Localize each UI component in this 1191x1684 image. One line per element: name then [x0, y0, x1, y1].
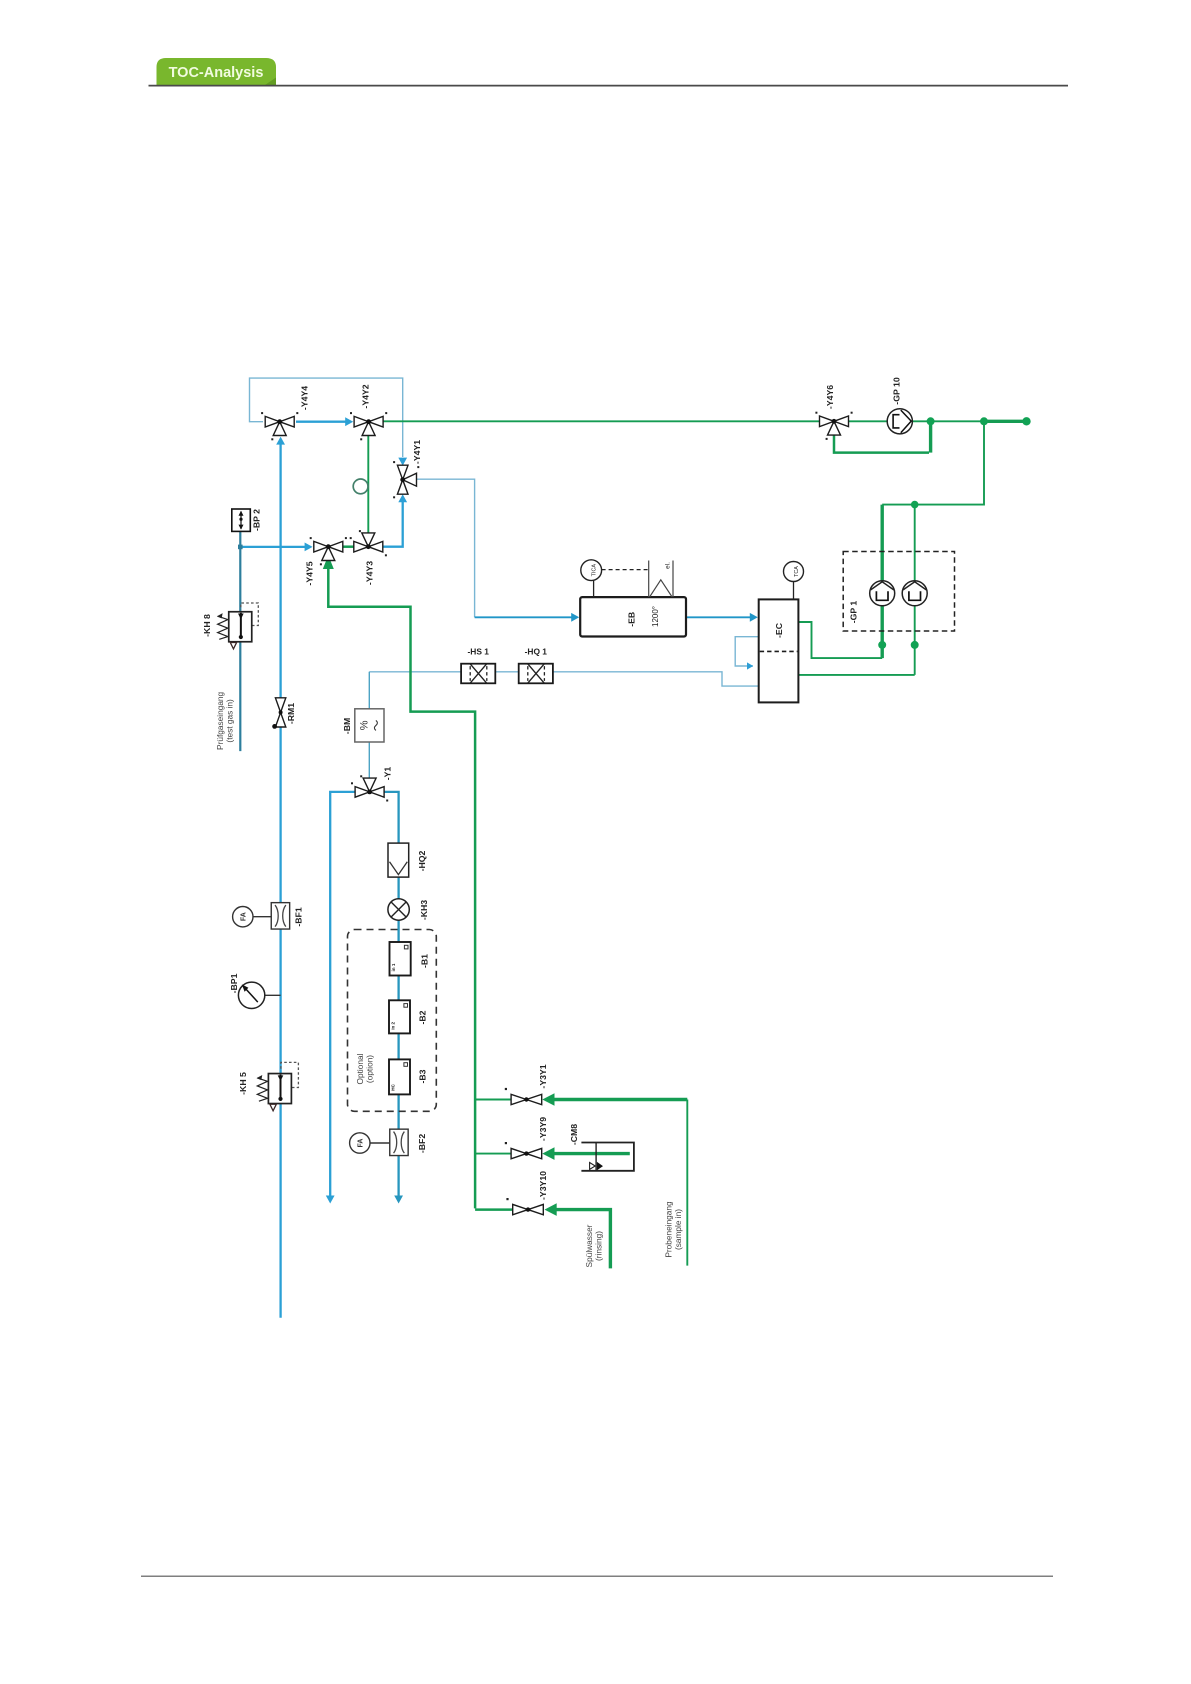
svg-text:-GP 1: -GP 1 — [849, 601, 859, 624]
svg-text:-HQ2: -HQ2 — [417, 850, 427, 871]
svg-text:TOC-Analysis: TOC-Analysis — [169, 65, 264, 81]
svg-text:-Y4Y4: -Y4Y4 — [300, 386, 310, 410]
svg-text:-CM8: -CM8 — [569, 1124, 579, 1145]
svg-text:-B1: -B1 — [420, 954, 430, 968]
svg-text:-Y4Y3: -Y4Y3 — [365, 561, 375, 585]
svg-text:-Y3Y1: -Y3Y1 — [538, 1064, 548, 1088]
svg-text:-EB: -EB — [627, 612, 637, 627]
svg-text:-Y3Y10: -Y3Y10 — [538, 1171, 548, 1200]
svg-text:(option): (option) — [365, 1055, 375, 1083]
svg-text:-HQ 1: -HQ 1 — [525, 647, 548, 657]
svg-text:(sample in): (sample in) — [673, 1209, 683, 1250]
svg-text:Probeneingang: Probeneingang — [664, 1201, 674, 1258]
svg-text:-B2: -B2 — [418, 1010, 428, 1024]
svg-text:-Y4Y6: -Y4Y6 — [825, 385, 835, 409]
svg-text:(rinsing): (rinsing) — [594, 1231, 604, 1261]
svg-text:-BP1: -BP1 — [229, 973, 239, 993]
svg-text:-HS 1: -HS 1 — [467, 647, 489, 657]
svg-text:Optional: Optional — [355, 1053, 365, 1084]
svg-text:-Y1: -Y1 — [383, 767, 393, 781]
svg-text:-KH 8: -KH 8 — [202, 614, 212, 637]
svg-text:-Y4Y2: -Y4Y2 — [361, 384, 371, 408]
svg-text:in 2: in 2 — [390, 1021, 395, 1029]
svg-text:-GP 10: -GP 10 — [892, 377, 902, 405]
svg-text:-KH3: -KH3 — [419, 900, 429, 920]
svg-text:-Y3Y9: -Y3Y9 — [538, 1117, 548, 1141]
svg-text:-BM: -BM — [342, 718, 352, 734]
svg-text:Prüfgaseingang: Prüfgaseingang — [215, 691, 225, 750]
svg-text:TICA: TICA — [592, 564, 598, 577]
svg-text:-Y4Y5: -Y4Y5 — [305, 561, 315, 585]
svg-text:1200°: 1200° — [651, 606, 660, 627]
svg-text:-RM1: -RM1 — [286, 703, 296, 724]
svg-text:(test gas in): (test gas in) — [225, 699, 235, 743]
svg-text:%: % — [358, 720, 370, 730]
svg-text:TCA: TCA — [794, 566, 800, 577]
svg-text:-Y4Y1: -Y4Y1 — [412, 440, 422, 464]
svg-text:-BF2: -BF2 — [417, 1134, 427, 1153]
svg-text:Spülwasser: Spülwasser — [584, 1224, 594, 1267]
svg-text:-KH 5: -KH 5 — [238, 1072, 248, 1095]
svg-text:-B3: -B3 — [418, 1069, 428, 1083]
svg-text:-BP 2: -BP 2 — [252, 509, 262, 531]
svg-text:in 1: in 1 — [391, 963, 396, 971]
svg-text:HC: HC — [390, 1083, 395, 1090]
svg-text:-BF1: -BF1 — [294, 907, 304, 926]
svg-text:-EC: -EC — [774, 622, 784, 638]
svg-text:el.: el. — [665, 562, 672, 569]
